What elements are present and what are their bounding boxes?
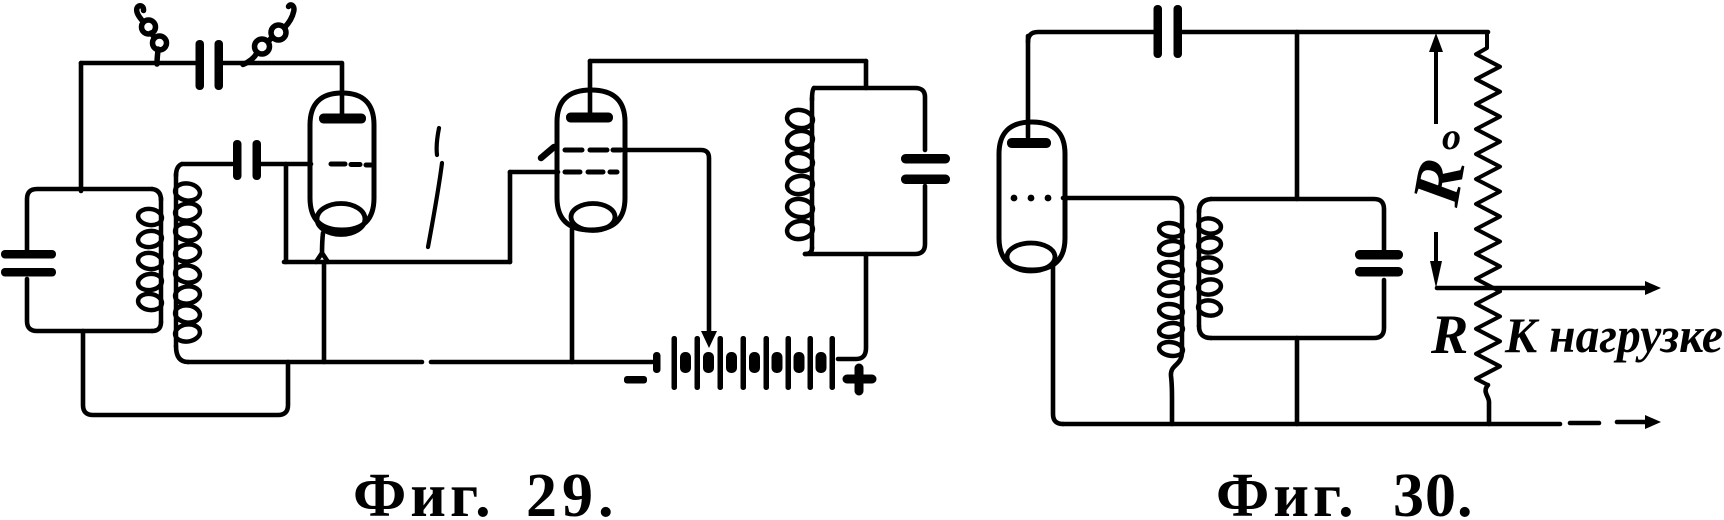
coil L1 primary (left winding of input transformer)	[152, 189, 161, 200]
coil L3 (output tank inductor)	[812, 88, 814, 100]
V3 grid (dotted)	[1011, 195, 1018, 202]
triode V3 envelope	[999, 122, 1065, 270]
arrowhead into battery	[701, 331, 717, 348]
wire: V3 cathode to bottom rail	[1053, 266, 1063, 424]
tetrode V2 envelope	[557, 90, 625, 230]
output tank box L3C3	[814, 88, 925, 150]
wire: Fig29 top rail left segment	[81, 61, 195, 66]
V3 cathode loop	[1007, 243, 1055, 271]
V2 control grid (dashed)	[565, 170, 617, 175]
wire: resistor bottom to rail	[1486, 385, 1489, 424]
battery minus sign	[624, 376, 647, 384]
capacitor C3	[901, 154, 950, 164]
svg-text:К нагрузке: К нагрузке	[1504, 307, 1723, 363]
coil L2 secondary (right winding of input transformer)	[176, 164, 182, 176]
svg-text:30.: 30.	[1393, 462, 1474, 520]
wire: to V2 grid	[510, 170, 558, 175]
wire: V2 screen tap to battery	[627, 150, 709, 333]
wire: tap arrow to load (upper)	[1437, 286, 1645, 291]
wire: lower return loop from tank to rail	[83, 331, 288, 415]
battery B	[653, 352, 661, 373]
tank L1C1: left box outline (top, bottom, left edges)	[27, 189, 152, 250]
wire: V3 grid to coupling coil	[1063, 198, 1182, 208]
capacitor C5	[1355, 250, 1403, 260]
wire: Fig29 bottom rail	[188, 360, 422, 365]
V2 cathode loop	[571, 204, 615, 231]
V1 cathode loop	[317, 204, 365, 235]
stray pen stroke	[437, 128, 439, 155]
V2 screen grid (dashed)	[565, 148, 621, 153]
V2 plate lead	[588, 61, 593, 114]
coil L4 (grid side)	[1180, 206, 1185, 352]
wire: junction drop to tank top	[1295, 32, 1300, 199]
wire: left vertical from top rail to tank	[79, 63, 84, 191]
battery plus sign	[847, 368, 872, 391]
capacitor C-antenna	[196, 40, 205, 90]
svg-text:R: R	[1430, 304, 1468, 366]
wire: Fig30 bottom rail	[1063, 422, 1560, 427]
R0 measurement arrow (up segment)	[1434, 48, 1438, 124]
triode V1 envelope	[310, 93, 374, 230]
antenna pigtail left	[157, 49, 158, 64]
svg-text:Фиг.: Фиг.	[1216, 462, 1358, 520]
wire: bottom output arrow	[1617, 420, 1645, 425]
resistor R0+R (zigzag)	[1476, 32, 1500, 385]
V1 plate lead	[340, 63, 345, 115]
wire: V2 grid riser	[508, 172, 513, 262]
wire: Fig29 top rail from V2 plate to output tank	[590, 59, 866, 64]
wire: V1 cathode lead down to bottom rail	[322, 233, 323, 255]
wire: grid capacitor to tube V1 grid	[261, 162, 311, 167]
V3 anode bar	[1007, 138, 1051, 148]
wire: Fig30 top rail	[1028, 32, 1153, 42]
svg-text:o: o	[1442, 116, 1461, 158]
R0 measurement arrow (down segment)	[1434, 232, 1438, 266]
wire: Fig29 top rail right segment	[223, 61, 341, 66]
wire: tank bottom to rail	[1295, 338, 1300, 424]
V1 anode bar	[319, 114, 366, 124]
V3 plate lead	[1026, 36, 1031, 137]
wire: mid horizontal bus (V1 cathode / V2 grid return)	[284, 260, 510, 265]
wire: L4 bottom tail to rail	[1171, 352, 1182, 424]
antenna pigtail right	[243, 53, 257, 65]
wire: top rail to resistor	[1182, 30, 1488, 35]
svg-text:29.: 29.	[526, 462, 619, 520]
V2 anode bar	[566, 113, 613, 123]
wire: tank top lead	[864, 61, 869, 88]
junction caret at V1 cathode	[316, 253, 328, 262]
tank box L5C5	[1211, 199, 1384, 250]
wire: V2 cathode lead to bottom rail	[570, 229, 575, 362]
capacitor C2 (grid coupling)	[233, 140, 242, 180]
capacitor C4 (top)	[1154, 5, 1163, 58]
pen tick near V2 grid	[541, 147, 554, 158]
coil L5 (tank inductor, left side of box)	[1199, 199, 1211, 212]
wire: tank bottom lead to battery +	[838, 254, 866, 359]
wire: tee down from grid wire	[284, 164, 289, 262]
V1 grid (dashed)	[331, 164, 371, 165]
svg-text:Фиг.: Фиг.	[353, 462, 495, 520]
capacitor C1 on left edge of tank	[1, 250, 56, 259]
wire: secondary top to grid capacitor	[182, 162, 232, 167]
